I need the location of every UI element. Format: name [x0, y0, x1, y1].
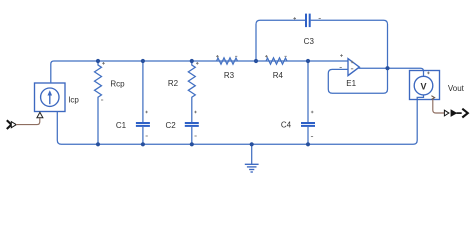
C2 polarity markers [194, 111, 197, 136]
wire output node to voltmeter plus [388, 68, 424, 76]
svg-text:R4: R4 [273, 71, 284, 80]
C4 polarity markers [311, 111, 314, 137]
R2 polarity markers [196, 62, 199, 65]
wire op-amp minus feedback loop [328, 68, 387, 93]
resistor R2 [188, 61, 195, 122]
wire C3 right to op-amp output node [311, 20, 388, 68]
wire Icp bottom to bottom rail and bottom rail to voltmeter [57, 95, 423, 144]
capacitor C2 [185, 123, 199, 144]
ground [245, 144, 259, 172]
capacitor C3 [306, 14, 310, 28]
svg-text:C1: C1 [116, 121, 127, 130]
wire C3 feedback loop left side (node between R3 and R4 up) [256, 20, 305, 61]
capacitor C4 [301, 61, 315, 144]
resistor R3 [217, 58, 238, 64]
output port Out [444, 109, 467, 118]
junction node dots bottom rail [96, 142, 100, 146]
svg-text:R3: R3 [224, 71, 235, 80]
Icp signal input terminal triangle [37, 112, 43, 117]
junction node dot op-amp output [385, 66, 389, 70]
op-amp input polarity markers [340, 54, 343, 67]
junction node dots top rail [96, 59, 100, 63]
voltmeter Vout [410, 71, 440, 100]
svg-text:Rcp: Rcp [110, 79, 125, 88]
op-amp E1 [348, 59, 359, 76]
svg-text:C3: C3 [304, 37, 315, 46]
R4 polarity markers [265, 55, 287, 58]
svg-text:Icp: Icp [68, 95, 79, 104]
wire op-amp output to node [359, 67, 388, 69]
C3 polarity markers [293, 17, 320, 20]
current source Icp [35, 83, 66, 112]
svg-text:Vout: Vout [448, 84, 465, 93]
input port In [7, 120, 16, 129]
wire voltmeter signal to output port [433, 100, 444, 114]
svg-text:R2: R2 [168, 79, 179, 88]
svg-text:C2: C2 [165, 121, 176, 130]
R3 polarity markers [216, 55, 237, 58]
Rcp polarity markers [101, 62, 105, 100]
wire Icp top to top rail / op-amp plus input [51, 61, 348, 83]
svg-text:V: V [420, 81, 426, 91]
capacitor C1 [136, 61, 150, 144]
resistor Rcp [95, 61, 102, 144]
svg-text:C4: C4 [281, 121, 292, 130]
svg-text:E1: E1 [346, 79, 356, 88]
C1 polarity markers [145, 111, 148, 136]
wire input port to Icp terminal [16, 118, 40, 124]
resistor R4 [266, 58, 287, 64]
